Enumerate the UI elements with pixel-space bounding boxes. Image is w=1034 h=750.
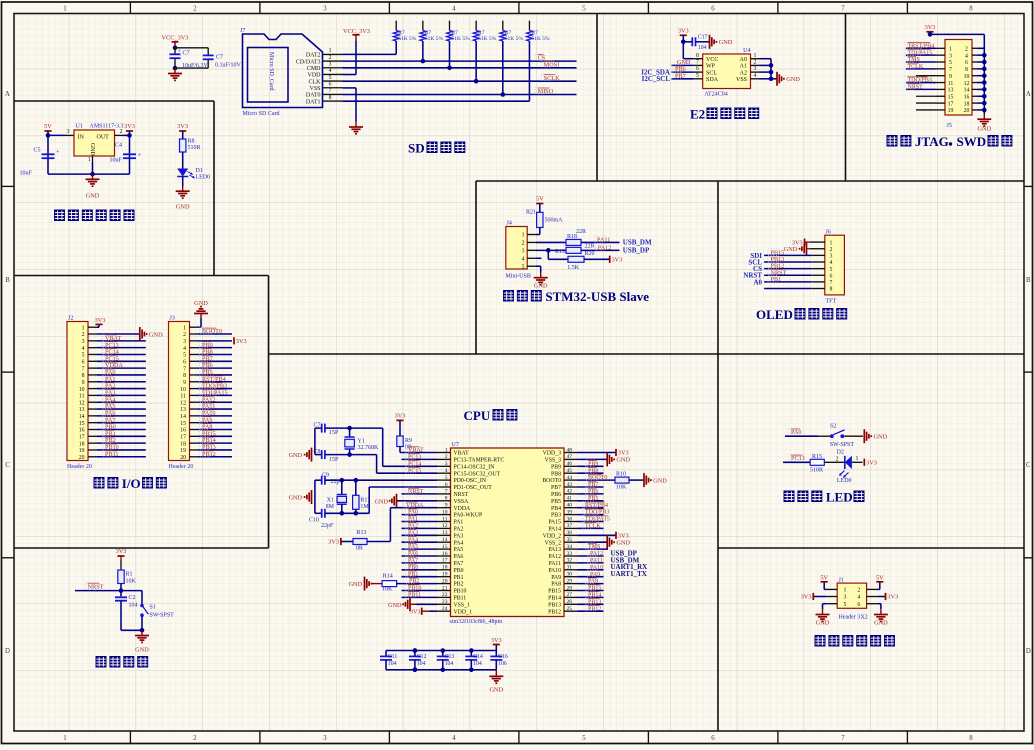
svg-text:1: 1: [445, 447, 448, 453]
svg-text:SDA: SDA: [706, 77, 719, 83]
svg-text:30: 30: [567, 572, 573, 578]
svg-text:12: 12: [79, 400, 85, 406]
svg-text:BOOT0: BOOT0: [588, 475, 607, 481]
svg-text:11: 11: [948, 81, 954, 87]
svg-text:22R: 22R: [576, 229, 586, 235]
svg-text:VSSA: VSSA: [454, 499, 470, 505]
svg-text:PA12: PA12: [598, 244, 612, 251]
svg-text:OUT: OUT: [97, 134, 110, 140]
svg-text:TDI/PA15: TDI/PA15: [908, 50, 933, 56]
svg-text:31: 31: [567, 565, 573, 571]
svg-text:R14: R14: [383, 574, 393, 580]
svg-text:TCLK: TCLK: [908, 64, 924, 70]
svg-text:R15: R15: [812, 454, 822, 460]
svg-text:21: 21: [442, 585, 448, 591]
svg-text:PD0-OSC_IN: PD0-OSC_IN: [454, 478, 487, 484]
svg-text:104: 104: [129, 603, 138, 609]
svg-text:48: 48: [567, 447, 573, 453]
svg-text:I2C_SCL: I2C_SCL: [642, 75, 671, 83]
svg-text:10uF: 10uF: [20, 171, 33, 177]
svg-text:29: 29: [567, 578, 573, 584]
svg-text:2: 2: [329, 55, 332, 61]
svg-text:3: 3: [522, 249, 525, 255]
svg-text:5: 5: [844, 602, 847, 608]
svg-text:A2: A2: [740, 70, 747, 76]
svg-text:1: 1: [88, 157, 91, 163]
svg-text:3: 3: [754, 66, 757, 72]
svg-text:12: 12: [442, 523, 448, 529]
svg-text:GND: GND: [977, 126, 991, 133]
svg-text:B: B: [5, 277, 10, 284]
svg-text:42: 42: [567, 489, 573, 495]
svg-text:PB0: PB0: [454, 568, 464, 574]
svg-text:A1: A1: [740, 64, 747, 70]
svg-text:0.1uF/10V: 0.1uF/10V: [215, 63, 242, 69]
svg-text:PB6: PB6: [588, 489, 598, 495]
svg-text:PA12: PA12: [548, 554, 561, 560]
svg-text:PA8: PA8: [551, 582, 561, 588]
svg-text:2: 2: [193, 6, 197, 13]
svg-text:TFT: TFT: [826, 299, 837, 305]
svg-text:GND: GND: [786, 76, 800, 83]
svg-text:VDD_1: VDD_1: [454, 609, 472, 615]
svg-text:4: 4: [445, 468, 448, 474]
svg-text:3V3: 3V3: [116, 548, 127, 555]
svg-text:OLED: OLED: [756, 307, 793, 322]
svg-text:51K 5%: 51K 5%: [505, 36, 524, 42]
svg-text:2: 2: [183, 332, 186, 338]
svg-text:13: 13: [948, 88, 954, 94]
svg-text:PC13-TAMPER-RTC: PC13-TAMPER-RTC: [454, 458, 505, 464]
svg-text:PA10: PA10: [548, 568, 561, 574]
svg-text:U1: U1: [76, 124, 83, 130]
svg-text:VDDA: VDDA: [454, 506, 472, 512]
svg-text:23: 23: [442, 599, 448, 605]
svg-text:25: 25: [567, 606, 573, 612]
svg-text:J5: J5: [947, 123, 952, 129]
svg-text:10K: 10K: [382, 586, 393, 592]
svg-text:33: 33: [567, 551, 573, 557]
svg-text:22R: 22R: [585, 243, 595, 249]
svg-text:R20: R20: [585, 251, 595, 257]
svg-text:104: 104: [698, 45, 707, 51]
svg-text:A0: A0: [740, 57, 747, 63]
svg-text:TDI/PA15: TDI/PA15: [585, 517, 610, 523]
svg-text:2: 2: [82, 332, 85, 338]
svg-text:5: 5: [445, 475, 448, 481]
svg-text:SCLK: SCLK: [544, 75, 561, 82]
svg-text:5: 5: [582, 735, 586, 742]
svg-text:2: 2: [120, 129, 123, 135]
svg-text:PA4: PA4: [408, 537, 418, 543]
svg-text:S2: S2: [830, 424, 836, 430]
svg-text:C13: C13: [445, 654, 455, 660]
svg-text:7: 7: [82, 366, 85, 372]
svg-text:22p: 22p: [331, 479, 340, 485]
svg-text:VSS: VSS: [736, 77, 747, 83]
svg-text:10K: 10K: [126, 578, 137, 584]
svg-text:PB0: PB0: [408, 565, 418, 571]
svg-text:PD1-OSC_OUT: PD1-OSC_OUT: [454, 485, 493, 491]
svg-text:C9: C9: [322, 473, 329, 479]
svg-text:5V: 5V: [820, 574, 828, 581]
svg-text:A: A: [1026, 91, 1031, 98]
svg-text:PA3: PA3: [408, 530, 418, 536]
svg-text:2: 2: [857, 588, 860, 594]
svg-text:U7: U7: [452, 442, 459, 448]
svg-text:Micro SD Card: Micro SD Card: [243, 111, 280, 117]
svg-text:USB_DM: USB_DM: [623, 239, 652, 247]
svg-text:SCL: SCL: [706, 70, 717, 76]
svg-text:3V3: 3V3: [95, 317, 106, 324]
svg-text:1: 1: [856, 456, 859, 462]
svg-text:PB2: PB2: [409, 579, 419, 585]
svg-text:13: 13: [180, 407, 186, 413]
svg-text:LED0: LED0: [196, 174, 211, 180]
svg-text:2: 2: [445, 454, 448, 460]
svg-text:3V3: 3V3: [236, 338, 247, 345]
svg-text:6: 6: [857, 602, 860, 608]
svg-text:GND: GND: [874, 619, 888, 626]
svg-text:D2: D2: [837, 450, 844, 456]
svg-text:500mA: 500mA: [545, 217, 564, 223]
svg-text:X1: X1: [327, 497, 334, 503]
svg-text:4: 4: [965, 53, 968, 59]
svg-text:18: 18: [180, 441, 186, 447]
svg-text:J2: J2: [68, 316, 73, 322]
svg-text:R8: R8: [188, 138, 195, 144]
svg-text:7: 7: [841, 6, 845, 13]
svg-text:PB3: PB3: [551, 513, 561, 519]
svg-text:MOSI: MOSI: [544, 61, 560, 68]
svg-text:CMD: CMD: [307, 66, 321, 72]
svg-text:104: 104: [388, 661, 397, 667]
svg-text:16: 16: [180, 428, 186, 434]
svg-text:51K 5%: 51K 5%: [531, 36, 550, 42]
svg-text:3: 3: [949, 53, 952, 59]
svg-text:PB12: PB12: [202, 451, 216, 458]
svg-text:NRST: NRST: [908, 85, 924, 91]
svg-text:B: B: [1026, 277, 1031, 284]
svg-text:15: 15: [79, 421, 85, 427]
svg-text:10K: 10K: [616, 485, 627, 491]
svg-text:AT24C04: AT24C04: [704, 91, 727, 97]
svg-text:8: 8: [329, 95, 332, 101]
svg-text:C14: C14: [473, 654, 483, 660]
svg-text:GND: GND: [784, 246, 798, 253]
svg-text:PB12: PB12: [548, 609, 561, 615]
svg-text:9: 9: [949, 74, 952, 80]
svg-text:5: 5: [522, 264, 525, 270]
svg-text:PB10: PB10: [454, 589, 467, 595]
svg-text:GND: GND: [616, 540, 630, 547]
svg-text:5: 5: [82, 353, 85, 359]
svg-text:PA8: PA8: [588, 579, 598, 585]
svg-text:18: 18: [964, 101, 970, 107]
svg-text:PB7: PB7: [588, 482, 598, 488]
svg-text:2: 2: [193, 735, 197, 742]
svg-text:S1: S1: [150, 605, 156, 611]
svg-text:16: 16: [964, 94, 970, 100]
svg-text:PB9: PB9: [588, 461, 598, 467]
svg-text:12: 12: [180, 400, 186, 406]
svg-text:VDD_2: VDD_2: [543, 533, 561, 539]
svg-text:SD: SD: [408, 141, 425, 156]
svg-text:VCC: VCC: [706, 57, 718, 63]
svg-text:51K 5%: 51K 5%: [398, 36, 417, 42]
svg-text:VBAT: VBAT: [454, 451, 470, 457]
svg-text:8: 8: [830, 287, 833, 293]
svg-text:3V3: 3V3: [887, 594, 898, 601]
svg-text:GND: GND: [816, 619, 830, 626]
svg-text:1: 1: [183, 325, 186, 331]
svg-text:4: 4: [82, 346, 85, 352]
svg-text:STM32-USB Slave: STM32-USB Slave: [545, 289, 649, 304]
svg-text:PB15: PB15: [588, 586, 601, 592]
svg-text:U4: U4: [743, 48, 750, 54]
svg-text:C4: C4: [115, 142, 122, 148]
svg-text:LED: LED: [826, 490, 853, 505]
svg-text:10: 10: [180, 387, 186, 393]
svg-text:Header 20: Header 20: [169, 464, 194, 470]
svg-text:D: D: [1026, 648, 1031, 655]
svg-text:6: 6: [711, 6, 715, 13]
svg-text:VSS_2: VSS_2: [545, 540, 562, 546]
svg-text:USB_DP: USB_DP: [623, 247, 650, 255]
svg-text:3V3: 3V3: [491, 637, 502, 644]
svg-text:2: 2: [836, 456, 839, 462]
svg-text:17: 17: [79, 435, 85, 441]
svg-text:PA1: PA1: [454, 520, 464, 526]
svg-text:11: 11: [180, 394, 186, 400]
svg-text:PB13: PB13: [548, 602, 561, 608]
svg-text:4: 4: [329, 68, 332, 74]
svg-text:GND: GND: [616, 457, 630, 464]
svg-text:5: 5: [183, 353, 186, 359]
svg-text:8: 8: [696, 53, 699, 59]
svg-text:SWD: SWD: [957, 134, 987, 149]
svg-text:GND: GND: [489, 687, 503, 694]
svg-text:15P: 15P: [329, 457, 339, 463]
svg-text:40: 40: [567, 503, 573, 509]
svg-text:J1: J1: [839, 577, 844, 583]
svg-text:C11: C11: [388, 654, 398, 660]
svg-text:51K 5%: 51K 5%: [425, 36, 444, 42]
svg-text:PB4: PB4: [551, 506, 561, 512]
svg-text:20: 20: [180, 455, 186, 461]
svg-text:J7: J7: [240, 28, 245, 34]
svg-text:VDD: VDD: [308, 73, 322, 79]
svg-text:PB7: PB7: [675, 73, 686, 80]
svg-text:Header 20: Header 20: [67, 464, 92, 470]
svg-text:DAT1: DAT1: [306, 99, 321, 105]
svg-text:7: 7: [329, 88, 332, 94]
svg-text:19: 19: [180, 448, 186, 454]
svg-text:46: 46: [567, 461, 573, 467]
svg-text:8M: 8M: [326, 504, 335, 510]
svg-text:47: 47: [567, 454, 573, 460]
svg-text:GND: GND: [653, 477, 667, 484]
svg-text:SW-SPST: SW-SPST: [150, 612, 175, 618]
svg-text:1: 1: [830, 240, 833, 246]
svg-text:3: 3: [445, 461, 448, 467]
svg-text:1: 1: [63, 735, 66, 742]
svg-text:PA1: PA1: [408, 517, 418, 523]
svg-text:PB14: PB14: [548, 596, 561, 602]
svg-text:3: 3: [830, 254, 833, 260]
svg-text:3V3: 3V3: [177, 123, 188, 130]
svg-text:R21: R21: [526, 209, 536, 215]
svg-text:104: 104: [473, 661, 482, 667]
svg-text:3: 3: [67, 129, 70, 135]
svg-text:PA13: PA13: [548, 547, 561, 553]
svg-text:A: A: [5, 91, 10, 98]
svg-text:PA12: PA12: [590, 551, 603, 557]
svg-text:106: 106: [498, 661, 507, 667]
svg-text:PA14: PA14: [548, 527, 561, 533]
svg-text:32.768K: 32.768K: [358, 445, 380, 451]
svg-text:PA0: PA0: [791, 429, 801, 436]
svg-text:13: 13: [442, 530, 448, 536]
svg-text:PA6: PA6: [408, 551, 418, 557]
svg-text:15: 15: [180, 421, 186, 427]
svg-text:32: 32: [567, 558, 573, 564]
svg-text:6: 6: [711, 735, 715, 742]
svg-text:39: 39: [567, 509, 573, 515]
svg-text:3V3: 3V3: [410, 609, 421, 616]
svg-text:0R: 0R: [356, 546, 363, 552]
svg-text:8: 8: [82, 373, 85, 379]
svg-text:C7: C7: [183, 51, 190, 57]
svg-text:PA5: PA5: [408, 544, 418, 550]
svg-text:C17: C17: [698, 35, 708, 41]
svg-text:R1: R1: [126, 572, 133, 578]
svg-text:6: 6: [82, 360, 85, 366]
svg-text:PB5: PB5: [551, 499, 561, 505]
svg-text:VSS_3: VSS_3: [545, 458, 562, 464]
svg-text:17: 17: [948, 101, 954, 107]
svg-text:DAT2: DAT2: [306, 53, 321, 59]
svg-text:WP: WP: [706, 64, 716, 70]
svg-text:R19: R19: [555, 249, 565, 255]
svg-text:stm32f103c8t6_48pin: stm32f103c8t6_48pin: [450, 618, 503, 625]
svg-text:8: 8: [445, 496, 448, 502]
svg-text:VCC_3V3: VCC_3V3: [162, 35, 189, 42]
svg-text:A0: A0: [753, 278, 762, 286]
svg-text:3V3: 3V3: [395, 413, 406, 420]
svg-text:PA2: PA2: [454, 527, 464, 533]
svg-text:I/O: I/O: [122, 476, 141, 491]
svg-text:104: 104: [445, 661, 454, 667]
svg-text:3: 3: [323, 6, 327, 13]
svg-text:PA5: PA5: [454, 547, 464, 553]
svg-text:4: 4: [183, 346, 186, 352]
svg-text:45: 45: [567, 468, 573, 474]
svg-text:D1: D1: [196, 168, 203, 174]
svg-text:VDD_3: VDD_3: [543, 451, 561, 457]
svg-text:E2: E2: [690, 107, 705, 122]
svg-text:8: 8: [969, 735, 973, 742]
svg-text:510R: 510R: [188, 145, 201, 151]
svg-text:PB1: PB1: [454, 575, 464, 581]
svg-text:3V3: 3V3: [328, 539, 339, 546]
svg-text:6: 6: [445, 482, 448, 488]
svg-text:1: 1: [949, 47, 952, 53]
svg-text:CPU: CPU: [464, 408, 491, 423]
svg-text:R13: R13: [357, 530, 367, 536]
svg-text:9: 9: [445, 503, 448, 509]
svg-text:17: 17: [442, 558, 448, 564]
svg-text:PB11: PB11: [105, 451, 119, 458]
svg-text:PA11: PA11: [597, 237, 610, 244]
svg-text:PB11: PB11: [454, 596, 467, 602]
svg-text:8: 8: [965, 67, 968, 73]
svg-text:104: 104: [417, 661, 426, 667]
svg-text:C7: C7: [314, 423, 321, 429]
svg-text:1: 1: [329, 48, 332, 54]
svg-text:26: 26: [567, 599, 573, 605]
svg-text:1: 1: [63, 6, 66, 13]
svg-text:3V3: 3V3: [612, 257, 623, 264]
svg-text:GND: GND: [719, 39, 733, 46]
svg-text:2: 2: [522, 241, 525, 247]
svg-text:15: 15: [948, 94, 954, 100]
svg-text:PB15: PB15: [548, 589, 561, 595]
svg-text:PA3: PA3: [454, 533, 464, 539]
svg-text:SW-SPST: SW-SPST: [830, 442, 855, 448]
svg-text:BOOT0: BOOT0: [542, 478, 561, 484]
svg-text:5V: 5V: [876, 574, 884, 581]
svg-text:10uF: 10uF: [110, 157, 123, 163]
svg-text:5: 5: [830, 267, 833, 273]
svg-text:R9: R9: [405, 438, 412, 444]
svg-text:5: 5: [329, 75, 332, 81]
svg-text:19: 19: [79, 448, 85, 454]
svg-text:PC13: PC13: [791, 455, 805, 462]
svg-text:1.5K: 1.5K: [567, 265, 580, 271]
svg-text:GND: GND: [349, 581, 363, 588]
svg-text:DAT0: DAT0: [306, 93, 321, 99]
svg-text:2: 2: [965, 47, 968, 53]
svg-text:NRST: NRST: [88, 583, 104, 590]
svg-text:C5: C5: [34, 148, 41, 154]
svg-text:PA2: PA2: [408, 524, 418, 530]
svg-text:PA0: PA0: [408, 510, 418, 516]
svg-text:PB6: PB6: [551, 492, 561, 498]
svg-text:R10: R10: [616, 472, 626, 478]
svg-text:14: 14: [442, 537, 448, 543]
svg-text:GND: GND: [677, 59, 691, 66]
svg-text:PA11: PA11: [590, 558, 603, 564]
svg-text:TMS: TMS: [588, 544, 600, 550]
svg-text:3V3: 3V3: [801, 594, 812, 601]
svg-text:GND: GND: [176, 204, 190, 211]
svg-text:3V3: 3V3: [866, 460, 877, 467]
svg-text:NRST: NRST: [408, 489, 424, 495]
svg-text:C12: C12: [417, 654, 427, 660]
svg-text:VSS_1: VSS_1: [454, 602, 471, 608]
svg-text:18: 18: [79, 441, 85, 447]
svg-text:C7: C7: [216, 54, 223, 60]
svg-text:19: 19: [948, 108, 954, 114]
svg-text:6: 6: [965, 60, 968, 66]
svg-text:AMS1117-3.3: AMS1117-3.3: [90, 124, 124, 130]
svg-text:16: 16: [79, 428, 85, 434]
svg-text:510R: 510R: [810, 467, 823, 473]
svg-text:VSS: VSS: [309, 86, 320, 92]
svg-text:7: 7: [183, 366, 186, 372]
svg-text:VBAT: VBAT: [408, 448, 424, 454]
